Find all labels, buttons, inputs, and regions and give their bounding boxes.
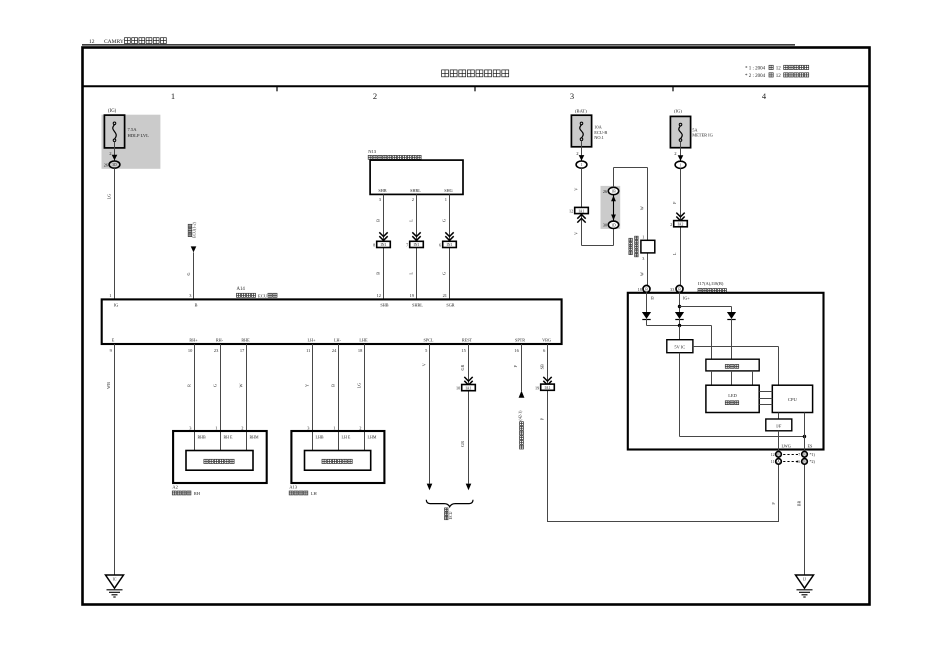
svg-text:IN1: IN1 bbox=[447, 243, 453, 247]
svg-text:LHB: LHB bbox=[316, 434, 324, 439]
svg-text:B: B bbox=[651, 296, 654, 301]
svg-text:2: 2 bbox=[670, 222, 672, 227]
svg-text:B: B bbox=[331, 384, 336, 387]
svg-text:V: V bbox=[574, 188, 579, 191]
svg-text:ECU: ECU bbox=[258, 293, 268, 298]
svg-text:LHE: LHE bbox=[359, 337, 368, 342]
svg-text:A14: A14 bbox=[237, 287, 246, 292]
svg-text:NO.1: NO.1 bbox=[594, 135, 604, 140]
svg-text:IC: IC bbox=[113, 578, 117, 582]
svg-text:1: 1 bbox=[680, 163, 682, 167]
svg-text:L: L bbox=[672, 252, 677, 255]
svg-text:W: W bbox=[639, 272, 644, 276]
svg-text:10: 10 bbox=[456, 386, 460, 391]
svg-text:19: 19 bbox=[535, 385, 539, 390]
svg-text:VBG: VBG bbox=[542, 337, 551, 342]
svg-text:ES: ES bbox=[808, 443, 814, 448]
svg-text:30: 30 bbox=[603, 223, 607, 228]
svg-text:W: W bbox=[639, 206, 644, 210]
svg-text:CAMRY: CAMRY bbox=[104, 39, 124, 45]
svg-text:2: 2 bbox=[412, 197, 414, 202]
svg-text:R: R bbox=[187, 384, 192, 387]
svg-text:SHRL: SHRL bbox=[410, 188, 421, 193]
svg-text:1: 1 bbox=[445, 197, 447, 202]
svg-text:*2): *2) bbox=[810, 459, 816, 464]
svg-text:RHB: RHB bbox=[198, 434, 207, 439]
svg-text:(IG): (IG) bbox=[108, 109, 117, 114]
svg-text:8: 8 bbox=[373, 243, 375, 248]
svg-text:B: B bbox=[803, 460, 806, 464]
svg-text:12: 12 bbox=[771, 452, 775, 457]
svg-text:1B: 1B bbox=[611, 190, 616, 194]
svg-text:HDLP LVL: HDLP LVL bbox=[128, 133, 150, 138]
svg-text:CPU: CPU bbox=[788, 397, 798, 402]
svg-text:Y: Y bbox=[305, 384, 310, 387]
svg-text:5A: 5A bbox=[692, 127, 698, 132]
svg-text:12: 12 bbox=[89, 39, 95, 45]
svg-text:12: 12 bbox=[776, 67, 782, 72]
svg-text:3: 3 bbox=[642, 256, 644, 261]
svg-text:IA1: IA1 bbox=[545, 386, 551, 390]
svg-text:GR: GR bbox=[460, 364, 465, 370]
svg-text:12: 12 bbox=[776, 74, 782, 79]
svg-text:LHM: LHM bbox=[368, 434, 377, 439]
svg-text:SHB: SHB bbox=[380, 303, 388, 308]
svg-text:11: 11 bbox=[306, 348, 310, 353]
svg-text:2: 2 bbox=[241, 426, 243, 431]
svg-text:SHRL: SHRL bbox=[412, 303, 423, 308]
svg-text:5V IC: 5V IC bbox=[674, 344, 685, 349]
svg-text:B: B bbox=[678, 288, 681, 292]
svg-text:V: V bbox=[422, 363, 427, 366]
svg-text:2: 2 bbox=[373, 91, 377, 101]
svg-text:WB: WB bbox=[106, 382, 111, 389]
svg-text:1: 1 bbox=[109, 293, 111, 298]
svg-text:21: 21 bbox=[443, 293, 447, 298]
svg-text:33: 33 bbox=[670, 287, 674, 292]
svg-text:V: V bbox=[574, 232, 579, 235]
svg-text:G: G bbox=[186, 272, 191, 275]
svg-text:ECU(1-2): ECU(1-2) bbox=[192, 221, 197, 238]
svg-text:W: W bbox=[239, 383, 244, 387]
svg-text:IG: IG bbox=[114, 303, 119, 308]
svg-text:7: 7 bbox=[406, 243, 408, 248]
svg-text:SPTR: SPTR bbox=[515, 337, 525, 342]
svg-text:1: 1 bbox=[642, 235, 644, 240]
svg-text:RH+: RH+ bbox=[189, 337, 198, 342]
svg-text:LH-: LH- bbox=[334, 337, 342, 342]
svg-text:I/F: I/F bbox=[776, 423, 782, 428]
svg-text:1D: 1D bbox=[611, 223, 616, 227]
svg-text:SHG: SHG bbox=[444, 188, 452, 193]
svg-text:7: 7 bbox=[798, 452, 800, 457]
svg-text:REST: REST bbox=[462, 337, 473, 342]
svg-text:B: B bbox=[803, 453, 806, 457]
svg-text:11: 11 bbox=[771, 459, 775, 464]
svg-text:G: G bbox=[213, 384, 218, 387]
svg-text:E: E bbox=[112, 337, 115, 342]
svg-text:26: 26 bbox=[104, 162, 108, 167]
svg-text:IA2: IA2 bbox=[678, 223, 684, 227]
svg-text:18: 18 bbox=[638, 287, 642, 292]
svg-text:B: B bbox=[376, 219, 381, 222]
svg-text:G: G bbox=[442, 219, 447, 222]
svg-text:IG+: IG+ bbox=[683, 296, 690, 301]
svg-text:N13: N13 bbox=[368, 149, 377, 154]
svg-text:1: 1 bbox=[171, 91, 175, 101]
svg-text:(BAT): (BAT) bbox=[575, 108, 587, 113]
svg-text:12: 12 bbox=[377, 293, 381, 298]
svg-text:1: 1 bbox=[215, 426, 217, 431]
svg-text:RHE: RHE bbox=[241, 337, 250, 342]
svg-text:A: A bbox=[777, 460, 780, 464]
svg-text:LG: LG bbox=[107, 194, 112, 200]
svg-text:IN1: IN1 bbox=[414, 243, 420, 247]
svg-text:SGR: SGR bbox=[446, 303, 454, 308]
svg-text:L: L bbox=[409, 219, 414, 222]
svg-text:B: B bbox=[376, 272, 381, 275]
svg-text:RH-: RH- bbox=[216, 337, 224, 342]
svg-text:*1): *1) bbox=[810, 452, 816, 457]
svg-text:BR: BR bbox=[797, 501, 802, 507]
svg-text:6: 6 bbox=[439, 243, 441, 248]
svg-text:(IG): (IG) bbox=[674, 108, 682, 113]
svg-text:12: 12 bbox=[569, 209, 573, 214]
svg-text:A13: A13 bbox=[289, 485, 298, 490]
svg-text:GR: GR bbox=[460, 441, 465, 447]
svg-text:LWG: LWG bbox=[782, 443, 791, 448]
svg-text:B: B bbox=[195, 303, 198, 308]
svg-text:RH E: RH E bbox=[224, 434, 234, 439]
svg-text:L: L bbox=[409, 272, 414, 275]
svg-text:LED: LED bbox=[728, 393, 737, 398]
svg-text:RHM: RHM bbox=[250, 434, 260, 439]
svg-text:1: 1 bbox=[333, 426, 335, 431]
svg-text:2: 2 bbox=[359, 426, 361, 431]
svg-text:LH+: LH+ bbox=[308, 337, 317, 342]
svg-text:SB: SB bbox=[540, 364, 545, 369]
svg-text:* 1 : 2004: * 1 : 2004 bbox=[745, 67, 766, 72]
svg-text:IA1: IA1 bbox=[579, 209, 585, 213]
svg-text:ECU: ECU bbox=[448, 511, 453, 519]
svg-text:1: 1 bbox=[581, 163, 583, 167]
svg-text:3: 3 bbox=[570, 91, 574, 101]
svg-text:A2: A2 bbox=[172, 485, 178, 490]
svg-text:METER IG: METER IG bbox=[692, 133, 713, 138]
svg-text:(42-1): (42-1) bbox=[518, 410, 523, 421]
svg-text:SHB: SHB bbox=[378, 188, 386, 193]
svg-text:RH: RH bbox=[194, 491, 201, 496]
svg-text:SPCL: SPCL bbox=[423, 337, 433, 342]
svg-text:7.5A: 7.5A bbox=[128, 127, 138, 132]
svg-text:IA1: IA1 bbox=[466, 386, 472, 390]
svg-text:26: 26 bbox=[603, 189, 607, 194]
svg-text:IN1: IN1 bbox=[381, 243, 387, 247]
svg-text:3D: 3D bbox=[112, 163, 117, 167]
svg-text:G: G bbox=[442, 272, 447, 275]
svg-text:LG: LG bbox=[357, 383, 362, 389]
svg-text:B: B bbox=[777, 453, 780, 457]
svg-text:B: B bbox=[645, 288, 648, 292]
svg-text:LH E: LH E bbox=[342, 434, 351, 439]
svg-text:LH: LH bbox=[311, 491, 318, 496]
svg-text:* 2 : 2004: * 2 : 2004 bbox=[745, 74, 766, 79]
